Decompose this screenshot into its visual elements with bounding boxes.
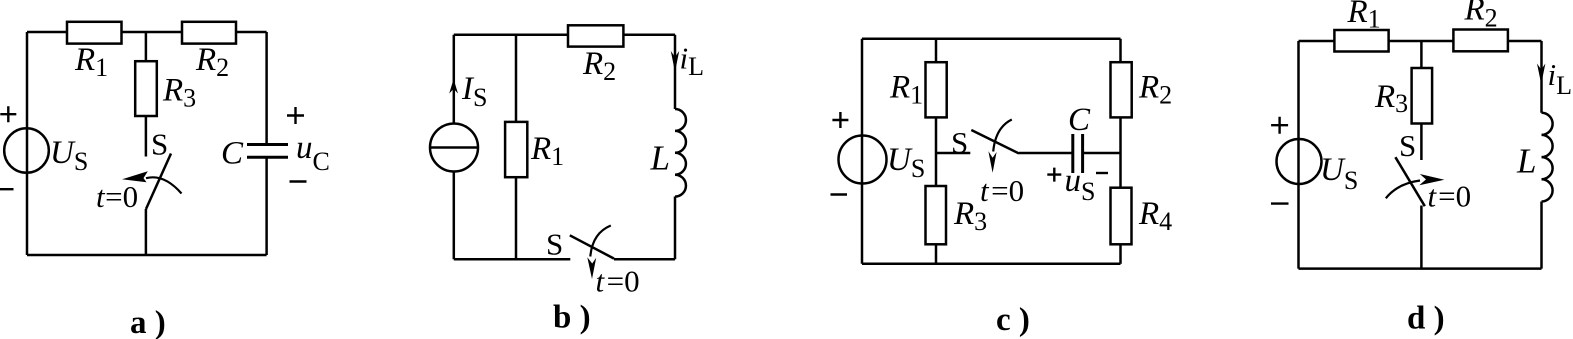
svg-text:S: S bbox=[151, 127, 168, 162]
switch S blade c bbox=[971, 130, 1019, 154]
minus sign of source d bbox=[1271, 202, 1289, 204]
wire: right lower b bbox=[674, 197, 677, 260]
wire: left side c bbox=[861, 39, 864, 264]
svg-text:R2: R2 bbox=[1464, 0, 1498, 33]
plus sign of source c bbox=[832, 112, 848, 128]
svg-text:R2: R2 bbox=[1138, 69, 1172, 109]
switch arrowhead a bbox=[122, 171, 148, 182]
wire: mid-left upper c bbox=[935, 39, 938, 62]
svg-text:iL: iL bbox=[1548, 57, 1573, 100]
svg-text:S: S bbox=[951, 125, 968, 160]
capacitor C plates c bbox=[1073, 134, 1083, 173]
svg-text:R1: R1 bbox=[889, 69, 923, 109]
svg-text:t=0: t=0 bbox=[596, 263, 640, 298]
wire: middle between switch and capacitor c bbox=[1019, 152, 1072, 155]
resistor R3 box d bbox=[1412, 68, 1433, 124]
capacitor C plates a bbox=[247, 145, 288, 158]
IS arrowhead b bbox=[449, 79, 458, 94]
wire: middle branch lower d bbox=[1420, 206, 1423, 269]
svg-text:uC: uC bbox=[296, 130, 330, 176]
wire: switch left contact c bbox=[936, 152, 970, 155]
svg-text:L: L bbox=[1516, 142, 1536, 181]
svg-text:R3: R3 bbox=[162, 73, 196, 113]
wire: left side a bbox=[26, 32, 29, 255]
svg-text:R1: R1 bbox=[1347, 0, 1381, 34]
wire: middle branch upper d bbox=[1420, 41, 1423, 68]
wire: right lower d bbox=[1540, 202, 1543, 269]
svg-text:t=0: t=0 bbox=[96, 179, 138, 214]
plus sign of capacitor a bbox=[287, 107, 304, 124]
resistor R3 box c bbox=[926, 186, 947, 244]
plus sign of uS c bbox=[1047, 168, 1061, 182]
wire: right side lower a bbox=[265, 157, 268, 255]
wire: bottom right b bbox=[614, 258, 675, 261]
svg-text:R1: R1 bbox=[74, 42, 108, 82]
svg-text:d ): d ) bbox=[1407, 301, 1445, 337]
current source bar b bbox=[430, 146, 478, 149]
wire: middle right of capacitor c bbox=[1084, 152, 1121, 155]
resistor R1 box b bbox=[505, 122, 527, 177]
svg-text:US: US bbox=[50, 135, 88, 176]
wire: top side b bbox=[454, 34, 675, 37]
switch S blade d bbox=[1395, 157, 1424, 206]
minus sign of uS c bbox=[1096, 172, 1108, 174]
svg-text:R3: R3 bbox=[1374, 79, 1408, 118]
svg-text:S: S bbox=[1399, 128, 1416, 163]
iL arrowhead b bbox=[671, 51, 679, 72]
wire: right lower c bbox=[1119, 244, 1122, 263]
resistor R2 box d bbox=[1453, 30, 1508, 52]
wire: right upper d bbox=[1540, 41, 1543, 113]
iL arrowhead d bbox=[1537, 64, 1545, 85]
wire: left upper b bbox=[453, 35, 456, 124]
svg-text:C: C bbox=[1068, 102, 1091, 138]
plus sign of source d bbox=[1271, 117, 1288, 134]
wire: middle branch upper a bbox=[145, 32, 148, 61]
wire: left side d bbox=[1297, 41, 1300, 269]
current source IS circle b bbox=[430, 124, 478, 172]
minus sign of source a bbox=[0, 188, 14, 190]
wire: top side c bbox=[862, 38, 1121, 41]
svg-text:S: S bbox=[546, 227, 563, 262]
wire: middle branch upper b bbox=[515, 35, 518, 122]
svg-text:C: C bbox=[221, 136, 244, 172]
svg-text:US: US bbox=[887, 142, 925, 183]
wire: bottom side d bbox=[1299, 267, 1542, 270]
plus sign of source a bbox=[0, 106, 16, 122]
svg-text:R4: R4 bbox=[1138, 196, 1172, 236]
switch S blade b bbox=[570, 235, 614, 258]
svg-text:c ): c ) bbox=[996, 302, 1030, 338]
wire: middle branch lower b bbox=[515, 177, 518, 259]
svg-text:iL: iL bbox=[680, 41, 705, 82]
resistor R1 box d bbox=[1334, 30, 1388, 52]
resistor R4 box c bbox=[1111, 188, 1132, 245]
wire: mid-left lower c bbox=[935, 244, 938, 263]
svg-text:US: US bbox=[1320, 152, 1358, 195]
svg-text:R2: R2 bbox=[582, 46, 616, 86]
svg-text:L: L bbox=[650, 139, 670, 178]
resistor R1 box c bbox=[926, 62, 947, 117]
svg-text:t=0: t=0 bbox=[980, 173, 1024, 208]
svg-text:R2: R2 bbox=[195, 42, 229, 82]
wire: right upper c bbox=[1119, 39, 1122, 62]
resistor R3 box a bbox=[135, 61, 157, 116]
switch arrow arc d bbox=[1386, 181, 1420, 199]
minus sign of source c bbox=[831, 193, 848, 195]
wire: right upper b bbox=[674, 35, 677, 109]
wire: left lower b bbox=[453, 172, 456, 260]
resistor R1 box a bbox=[67, 22, 122, 44]
minus sign of capacitor a bbox=[290, 180, 307, 182]
svg-text:uS: uS bbox=[1065, 163, 1096, 206]
wire: mid-left between R1 and R3 c bbox=[935, 117, 938, 186]
wire: right middle c bbox=[1119, 117, 1122, 187]
wire: middle branch R3 to switch a bbox=[145, 116, 148, 157]
svg-text:IS: IS bbox=[461, 71, 487, 112]
svg-text:R1: R1 bbox=[530, 131, 564, 171]
wire: top side d bbox=[1299, 40, 1542, 43]
wire: middle branch lower a bbox=[145, 209, 148, 255]
resistor R2 box b bbox=[568, 25, 623, 46]
wire: right side upper a bbox=[265, 32, 268, 144]
wire: bottom side a bbox=[27, 254, 267, 257]
wire: bottom left b bbox=[454, 258, 571, 261]
svg-text:t=0: t=0 bbox=[1428, 179, 1472, 214]
voltage source US circle d bbox=[1277, 139, 1322, 184]
svg-text:a ): a ) bbox=[130, 305, 166, 339]
inductor L b bbox=[675, 109, 686, 197]
wire: bottom side c bbox=[862, 263, 1121, 266]
switch arrow arc c bbox=[993, 120, 1012, 152]
switch arrow arc a bbox=[146, 177, 182, 193]
voltage source US circle a bbox=[4, 128, 49, 173]
resistor R2 box a bbox=[182, 22, 236, 44]
switch arrowhead b bbox=[587, 257, 596, 279]
voltage source US circle c bbox=[839, 136, 887, 184]
svg-text:b ): b ) bbox=[553, 300, 591, 336]
resistor R2 box c bbox=[1111, 62, 1132, 117]
wire: top side a bbox=[27, 31, 267, 34]
switch arrow arc b bbox=[590, 226, 611, 257]
wire: middle branch R3 to switch d bbox=[1420, 124, 1423, 161]
switch arrowhead c bbox=[988, 151, 996, 173]
switch S blade a bbox=[146, 154, 171, 210]
switch arrowhead d bbox=[1419, 174, 1444, 185]
inductor L d bbox=[1542, 113, 1553, 202]
